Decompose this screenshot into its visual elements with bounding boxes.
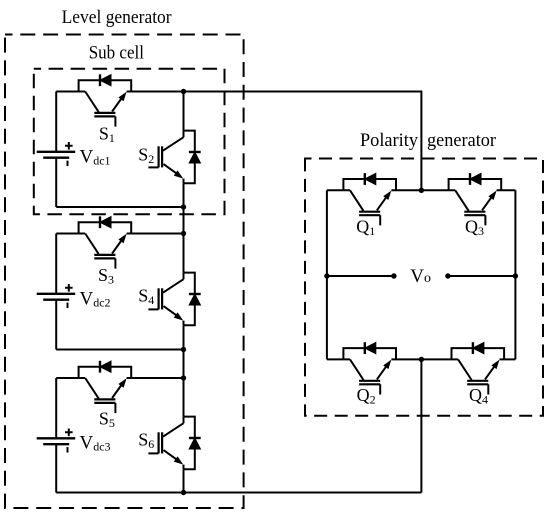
svg-text:S4: S4 — [138, 286, 154, 308]
node cell1 bottom — [181, 204, 186, 209]
transistor S4 — [148, 273, 200, 326]
node cell3 top — [181, 375, 186, 380]
svg-text:S3: S3 — [98, 265, 114, 287]
Level generator dashed box — [5, 35, 244, 509]
wire H-bridge top rail — [327, 189, 516, 191]
svg-text:Q3: Q3 — [465, 217, 484, 239]
svg-text:S2: S2 — [138, 145, 154, 167]
wire cell3 top rail left — [56, 377, 78, 379]
svg-text:Q1: Q1 — [356, 217, 375, 239]
svg-text:Vo: Vo — [410, 266, 431, 287]
wire H-bridge left rail — [326, 190, 328, 359]
wire Vo left stub — [327, 275, 394, 277]
wire cell2 left leg lower — [55, 300, 57, 350]
svg-text:Polarity: Polarity — [360, 130, 418, 151]
battery Vdc1 — [37, 142, 75, 166]
node Vo left rail — [324, 273, 329, 278]
wire cell2 top rail left — [56, 233, 78, 235]
node Vo left terminal — [391, 273, 396, 278]
wire bottom rail to polarity generator — [56, 492, 421, 494]
wire trunk segment 1 — [183, 92, 185, 131]
svg-text:S6: S6 — [138, 430, 154, 452]
transistor S2 — [148, 131, 200, 184]
wire cell1 left leg upper — [55, 92, 57, 152]
node H-bridge top center — [419, 188, 424, 193]
node cell2 bottom — [181, 347, 186, 352]
node cell2 top — [181, 231, 186, 236]
transistor Q1 — [343, 173, 396, 225]
Polarity generator dashed box — [305, 159, 543, 416]
svg-text:S5: S5 — [99, 409, 115, 431]
wire cell3 top rail right to trunk — [131, 377, 183, 379]
svg-text:Vdc2: Vdc2 — [80, 289, 111, 310]
wire cell1 bottom rail — [56, 206, 183, 208]
transistor S6 — [148, 417, 200, 470]
node Vo right rail — [513, 273, 518, 278]
svg-text:Q4: Q4 — [469, 385, 488, 407]
wire H-bridge bottom center down — [420, 359, 422, 492]
wire cell2 bottom rail — [56, 349, 183, 351]
transistor Q3 — [449, 173, 502, 225]
wire top interconnect to H-bridge — [184, 92, 422, 191]
transistor S5 — [79, 361, 132, 413]
svg-text:Q2: Q2 — [357, 385, 376, 407]
wire cell1 left leg lower — [55, 158, 57, 207]
wire trunk segment 2 — [183, 183, 185, 272]
battery Vdc3 — [37, 429, 75, 453]
wire H-bridge right rail — [514, 190, 516, 359]
node bottom rail — [181, 490, 186, 495]
svg-text:Vdc3: Vdc3 — [80, 433, 111, 454]
svg-text:S1: S1 — [99, 124, 115, 146]
transistor Q4 — [452, 342, 505, 394]
node top of trunk — [181, 89, 186, 94]
wire trunk segment 4 — [183, 469, 185, 492]
battery Vdc2 — [37, 284, 75, 308]
svg-text:Vdc1: Vdc1 — [80, 147, 111, 168]
node H-bridge bottom center — [419, 357, 424, 362]
svg-text:Level generator: Level generator — [62, 7, 173, 28]
svg-text:Sub cell: Sub cell — [89, 42, 144, 63]
wire cell1 top rail right to trunk — [131, 91, 183, 93]
transistor Q2 — [343, 342, 396, 394]
wire cell2 top rail right to trunk — [131, 233, 183, 235]
wire trunk segment 3 — [183, 325, 185, 416]
transistor S3 — [79, 216, 132, 268]
wire Vo right stub — [448, 275, 516, 277]
wire cell3 left leg upper — [55, 378, 57, 438]
wire cell3 left leg lower — [55, 444, 57, 492]
wire H-bridge bottom rail — [327, 358, 516, 360]
wire cell2 left leg upper — [55, 234, 57, 294]
wire cell1 top rail left — [56, 91, 78, 93]
node Vo right terminal — [445, 273, 450, 278]
Sub cell dashed box — [34, 69, 225, 215]
transistor S1 — [79, 74, 132, 126]
svg-text:generator: generator — [427, 130, 497, 151]
